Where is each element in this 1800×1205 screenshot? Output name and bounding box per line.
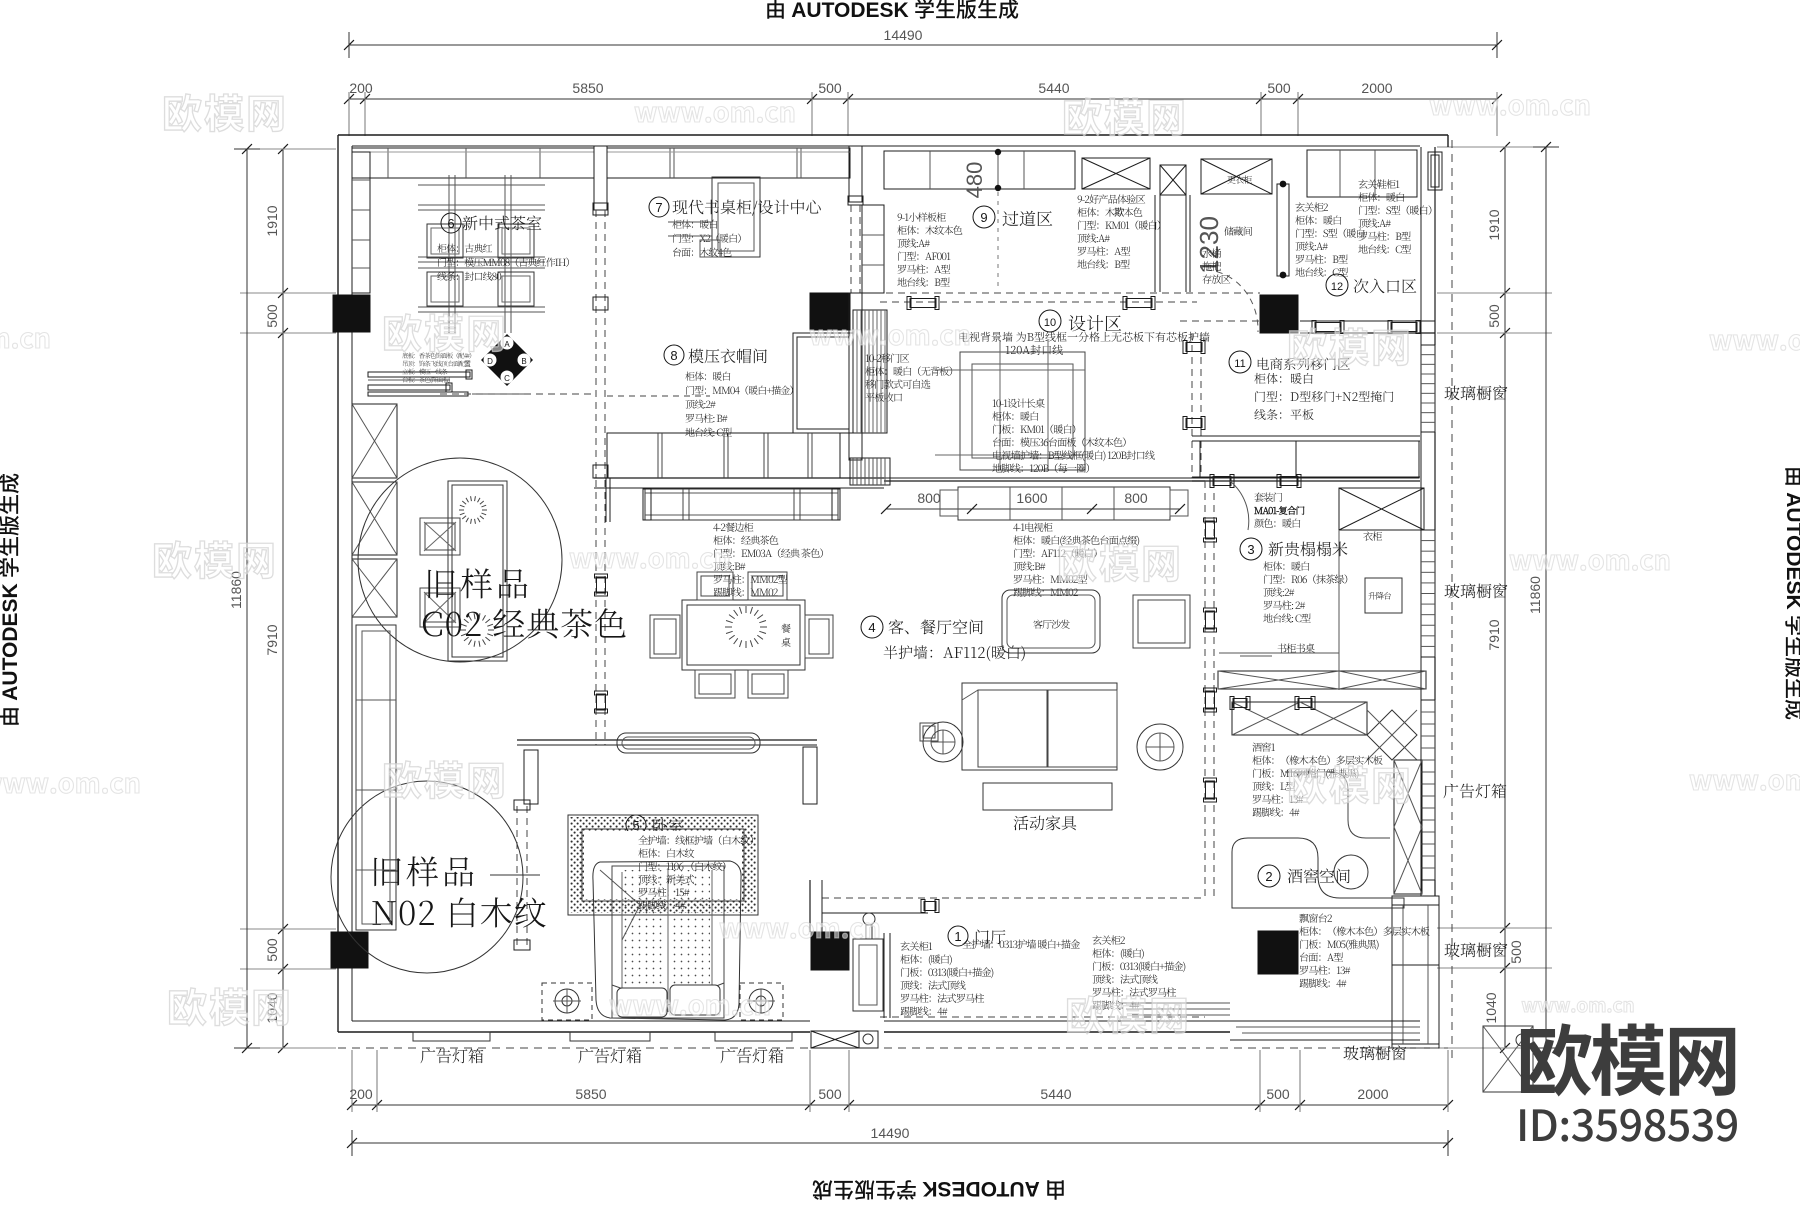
sample area: pointer line from N02 text [490, 874, 540, 876]
svg-text:500: 500 [1508, 940, 1524, 964]
room 10: TV wall long annotation [958, 329, 1210, 358]
svg-text:480: 480 [962, 162, 987, 199]
outer dimension: right total dimension line 11860 [1527, 142, 1559, 1053]
cabinet: dining side cabinet band 4-2 [606, 478, 840, 522]
room 9: 9-1 sample cabinet annotation block [897, 209, 963, 289]
svg-text:踢脚线：4#: 踢脚线：4# [900, 1003, 948, 1018]
svg-text:ID:3598539: ID:3598539 [1516, 1092, 1739, 1154]
room 2: vertical wine rack strip with X braces [1394, 760, 1422, 894]
svg-text:由 AUTODESK 学生版生成: 由 AUTODESK 学生版生成 [812, 1175, 1066, 1200]
room 10: 10-2 sliding door annotation block [865, 350, 958, 404]
sample area: display cabinet tall rect in C02 circle [448, 481, 507, 661]
svg-text:1910: 1910 [264, 205, 280, 236]
wall: living room / tatami-wine vertical dashed partition [1204, 481, 1217, 898]
svg-text:地台线：C型: 地台线：C型 [1358, 241, 1411, 256]
svg-text:顶线:2#: 顶线:2# [685, 396, 716, 411]
svg-text:2: 2 [1265, 869, 1272, 884]
svg-text:www.om.cn: www.om.cn [1429, 84, 1591, 123]
svg-text:7910: 7910 [1486, 619, 1502, 650]
room 8: lower cabinet band with dividers [607, 433, 840, 478]
storefront dashed glass line bottom [338, 1047, 1448, 1049]
window: right wall glass window lower (ladder symbol) [1421, 700, 1435, 880]
column: concrete column top-left (filled) [333, 295, 370, 332]
svg-text:1: 1 [954, 929, 961, 944]
sample area: big circle N02 [331, 781, 523, 973]
svg-text:罗马柱: B#: 罗马柱: B# [685, 410, 728, 425]
svg-text:更衣柜: 更衣柜 [1227, 173, 1252, 186]
room 6: finish annotation text block [437, 240, 575, 283]
svg-text:新贵榻榻米: 新贵榻榻米 [1268, 537, 1348, 560]
svg-text:桌: 桌 [781, 634, 791, 649]
wall: bedroom left dashed partition [514, 800, 530, 950]
room 5: nightstand left with target circle [542, 983, 592, 1020]
watermark: omo grid [0, 82, 1800, 1042]
wall: top exterior wall [338, 135, 1448, 147]
svg-text:12: 12 [1331, 281, 1343, 293]
wall: partition under study / wardrobe room horizontal [594, 478, 884, 488]
svg-text:客、餐厅空间: 客、餐厅空间 [888, 615, 984, 638]
room 3: door spec text tao zhuang men [1254, 489, 1306, 530]
room 2: 酒窖1 annotation block [1252, 739, 1383, 819]
svg-text:玻璃橱窗: 玻璃橱窗 [1343, 1041, 1407, 1064]
room 3: bookcase desk band with X braces [1218, 640, 1426, 689]
svg-text:www.om.cn: www.om.cn [0, 317, 51, 356]
room 4: 4-1 TV cabinet annotation block [1013, 519, 1139, 599]
svg-text:6: 6 [447, 216, 454, 231]
room 1: under-window X-braced box at entry [811, 1031, 878, 1048]
room 1: entry cabinet 2 annotation block [1092, 932, 1186, 1012]
svg-text:由 AUTODESK 学生版生成: 由 AUTODESK 学生版生成 [0, 473, 24, 727]
cabinet band: hallway top wall cabinets [884, 151, 1075, 189]
svg-text:500: 500 [818, 80, 842, 96]
column: concrete column bottom-center (filled) [811, 932, 849, 970]
wall: left exterior wall [338, 135, 352, 1032]
svg-text:500: 500 [1486, 304, 1502, 328]
room 10: room title circled 10 she ji qu [1039, 310, 1122, 336]
svg-text:www.om.cn: www.om.cn [719, 907, 881, 946]
svg-text:N02 白木纹: N02 白木纹 [371, 888, 548, 935]
wall: dining room bench wall bottom [517, 740, 817, 804]
svg-text:地台线：C型: 地台线：C型 [1295, 264, 1348, 279]
room 9: storage labels [1202, 223, 1253, 286]
svg-text:1910: 1910 [1486, 209, 1502, 240]
room 4: 4-2 side cabinet annotation block [713, 519, 829, 599]
svg-text:www.om.cn: www.om.cn [609, 984, 771, 1023]
room 7: finish annotation text block [672, 216, 746, 259]
cabinet: living room TV cabinet band [940, 487, 1188, 520]
sample area: wreath decor top [482, 509, 487, 511]
outer dimension: bottom total dimension line 14490 [347, 1125, 1453, 1156]
wall: living/dining dashed partition x=600 [595, 480, 597, 745]
column: concrete column top-right (filled) [1260, 295, 1298, 333]
cabinet band: entry area shoe cabinets top right [1307, 150, 1417, 197]
room 5: bed with quilt and pillows [593, 861, 741, 1020]
room 4: dining table with six chairs [650, 572, 833, 698]
lightbox: advertising lightbox strip 3 [715, 1032, 792, 1067]
room 8: dashed line inside wardrobe room [607, 395, 710, 397]
svg-text:门型：X2（暖白）: 门型：X2（暖白） [672, 230, 746, 245]
svg-text:500: 500 [1267, 80, 1291, 96]
storefront dashed glass line right side [1451, 140, 1453, 1060]
room 2: upper X-braced wine cabinet band [1230, 697, 1367, 736]
louver screen: vertical slatted panel right of wardrobe room [853, 310, 887, 433]
svg-text:欧模网: 欧模网 [162, 82, 288, 140]
wall: design area / secondary entry dashed boundary with band [862, 293, 1435, 334]
cabinet: narrow X-braced divider [1160, 165, 1186, 195]
svg-text:套装门: 套装门 [1254, 489, 1283, 504]
column: concrete column bottom-left (filled) [331, 932, 368, 968]
svg-text:2000: 2000 [1361, 80, 1392, 96]
room 5: stippled headboard feature wall [568, 815, 758, 915]
room 3: tatami room boundary lines [1219, 530, 1339, 690]
svg-text:欧模网: 欧模网 [1287, 754, 1413, 812]
window: right wall glass window upper (ladder symbol) [1421, 345, 1435, 432]
svg-text:玻璃橱窗: 玻璃橱窗 [1444, 579, 1508, 602]
room 5: bed pillows [617, 985, 720, 1017]
svg-text:3: 3 [1247, 542, 1254, 557]
svg-text:书柜书桌: 书柜书桌 [1277, 640, 1315, 655]
wall: partition between tea room and study (vertical, partly dashed) [593, 146, 608, 478]
room 6: tea mats squares [427, 224, 534, 306]
svg-text:200: 200 [349, 1086, 373, 1102]
svg-text:柜体：暖白: 柜体：暖白 [672, 216, 718, 231]
svg-text:升降台: 升降台 [1368, 590, 1392, 602]
louver screen: slatted screen next to wardrobe [850, 458, 890, 485]
svg-text:120A封口线: 120A封口线 [1005, 342, 1063, 358]
room 3: finish annotation block [1263, 558, 1353, 625]
svg-text:5850: 5850 [572, 80, 603, 96]
svg-text:线条：平板: 线条：平板 [1254, 406, 1314, 423]
svg-text:全护墙：0313护墙 暖白+描金: 全护墙：0313护墙 暖白+描金 [962, 936, 1080, 951]
room 4: armchair right [1133, 595, 1190, 648]
svg-text:2000: 2000 [1357, 1086, 1388, 1102]
dimension: interior 800/1600/800 above TV cabinet [881, 490, 1185, 514]
room 4: square floor lamp left [920, 723, 938, 741]
lightbox: advertising lightbox strip 1 [413, 1032, 490, 1067]
wall: storage niche verticals in secondary entry [1155, 195, 1190, 292]
door: storage room dashed swing arc [1206, 270, 1258, 332]
svg-text:次入口区: 次入口区 [1353, 274, 1417, 297]
svg-text:欧模网: 欧模网 [382, 302, 508, 360]
room 12: room title circled 12 ci ru kou qu [1326, 274, 1417, 297]
svg-text:地台线: C型: 地台线: C型 [1263, 610, 1311, 625]
svg-text:广告灯箱: 广告灯箱 [1443, 779, 1507, 802]
room 11: finish annotation block [1254, 370, 1394, 423]
svg-text:地台线：B型: 地台线：B型 [897, 274, 950, 289]
svg-text:500: 500 [264, 938, 280, 962]
outer dimension: top total dimension line 14490 [344, 27, 1502, 58]
svg-text:11860: 11860 [1527, 576, 1543, 614]
window: bay window seat band bottom-right [1392, 896, 1439, 1048]
svg-text:过道区: 过道区 [1002, 205, 1053, 230]
room 3: wardrobe X-braced cabinet top [1339, 488, 1424, 543]
sample area: classic chair top [420, 518, 460, 555]
svg-text:www.om.cn: www.om.cn [1689, 759, 1800, 798]
svg-text:平板收口: 平板收口 [865, 389, 903, 404]
svg-text:www.om.cn: www.om.cn [0, 762, 141, 801]
svg-text:10: 10 [1044, 317, 1056, 329]
svg-text:14490: 14490 [871, 1125, 910, 1141]
svg-text:200: 200 [349, 80, 373, 96]
svg-text:7: 7 [655, 200, 662, 215]
svg-text:欧模网: 欧模网 [1062, 86, 1188, 144]
room 10: 10-1 design desk annotation block [992, 395, 1155, 475]
room 1: entry cabinet 1 annotation block [900, 938, 994, 1018]
column: concrete column top-center (filled) [810, 293, 850, 330]
shelving: left wall display cabinet lower [356, 625, 396, 930]
svg-text:广告灯箱: 广告灯箱 [578, 1044, 642, 1067]
wall: entry hall dashed corridor boundary top [822, 898, 1205, 913]
room 1: entry door leaf with knob [810, 880, 890, 1018]
room 9: vertical dim 480 with dots [962, 149, 1001, 290]
svg-text:www.om.cn: www.om.cn [809, 314, 971, 353]
room 6: sliding door tracks [368, 370, 531, 396]
sample area: classic chair bottom [420, 588, 460, 627]
svg-text:欧模网: 欧模网 [382, 749, 508, 807]
svg-text:5850: 5850 [575, 1086, 606, 1102]
room 9: 9-2 product experience annotation block [1077, 191, 1166, 271]
svg-text:C: C [504, 374, 510, 383]
room 6: tea table group (rails) [418, 175, 545, 333]
room 12: entry cabinet 2 annotation block [1295, 199, 1366, 279]
svg-text:线条：封口线80: 线条：封口线80 [437, 268, 501, 283]
banner: top AUTODESK student edition text [765, 0, 1019, 24]
room 11: room title circled 11 dian shang xi lie yi men qu [1229, 351, 1351, 373]
svg-text:模压衣帽间: 模压衣帽间 [688, 344, 768, 367]
svg-text:存放区: 存放区 [1202, 271, 1231, 286]
room 4: round side table left [923, 722, 963, 762]
room 9: vertical dim 1230 with dots [1194, 216, 1224, 274]
wall: hallway lower dashed boundary [880, 297, 1197, 310]
svg-text:地台线：B型: 地台线：B型 [1077, 256, 1130, 271]
wall: TV feature wall horizontal (living room top) [884, 478, 1205, 481]
banner: right AUTODESK student edition text (rotated) [1780, 466, 1800, 720]
svg-text:玻璃橱窗: 玻璃橱窗 [1444, 381, 1508, 404]
svg-text:门型：MM04（暖白+描金）: 门型：MM04（暖白+描金） [685, 382, 799, 397]
svg-text:客厅沙发: 客厅沙发 [1033, 616, 1070, 631]
room 5: bed quilt dotted texture strips [624, 870, 710, 1010]
room 4: big sofa with cushions [962, 683, 1117, 770]
outer dimension: bottom segmented dimension line 200/5850/500/5440/500/2000 [347, 1050, 1453, 1112]
svg-text:半护墙：AF112(暖白): 半护墙：AF112(暖白) [883, 642, 1026, 663]
sample area: big circle C02 [358, 458, 562, 662]
room 4: living sofa small (ke ting sha fa) rounded rect [1002, 590, 1100, 653]
room 5: nightstand right with target circle [740, 983, 783, 1020]
svg-text:踢脚线：4#: 踢脚线：4# [1299, 975, 1347, 990]
room 2: room title circled 2 jiu jiao kong jian [1258, 864, 1351, 887]
room 3: lifting table sheng jiang tai [1365, 578, 1402, 613]
svg-text:www.om.cn: www.om.cn [569, 537, 731, 576]
svg-text:8: 8 [670, 348, 677, 363]
svg-text:5440: 5440 [1040, 1086, 1071, 1102]
svg-text:电视背景墙 为B型线框一分格上无芯板下有芯板护墙: 电视背景墙 为B型线框一分格上无芯板下有芯板护墙 [958, 329, 1210, 345]
svg-text:餐: 餐 [781, 620, 791, 635]
room 4: dining table label can zhuo (vertical) [781, 620, 791, 649]
svg-text:C02 经典茶色: C02 经典茶色 [421, 599, 628, 646]
svg-text:现代书桌柜/设计中心: 现代书桌柜/设计中心 [672, 195, 822, 218]
wall: entry hall dashed corridor boundary bottom [880, 1016, 1205, 1018]
svg-text:由 AUTODESK 学生版生成: 由 AUTODESK 学生版生成 [765, 0, 1019, 24]
svg-text:新中式茶室: 新中式茶室 [462, 211, 542, 234]
room 6: dashed opening to sample area [440, 393, 594, 395]
svg-text:广告灯箱: 广告灯箱 [720, 1044, 784, 1067]
cabinet band: study room top wall shelving [607, 148, 850, 178]
svg-text:活动家具: 活动家具 [1013, 811, 1078, 834]
window: storage niche window symbol with dim dots [1277, 181, 1289, 279]
room 2: curved tasting counter [1232, 772, 1404, 908]
svg-text:门型：D型移门+N2型掩门: 门型：D型移门+N2型掩门 [1254, 388, 1394, 405]
sample area: wreath decor bottom [488, 629, 494, 631]
room 3: room title circled 3 xin gui ta ta mi [1240, 537, 1348, 560]
wall: right exterior wall with storefront sections [1421, 147, 1435, 896]
svg-text:地台线: C型: 地台线: C型 [685, 424, 732, 439]
room 1: room title circled 1 men ting [948, 925, 1080, 951]
svg-text:800: 800 [1124, 490, 1148, 506]
svg-text:欧模网: 欧模网 [1065, 984, 1191, 1042]
svg-text:7910: 7910 [264, 624, 280, 655]
svg-text:酒窖空间: 酒窖空间 [1287, 864, 1351, 887]
svg-text:玻璃橱窗: 玻璃橱窗 [1444, 938, 1508, 961]
room 2: bay window seat lines bottom [1120, 1003, 1420, 1040]
column: concrete column bottom-right (filled) [1258, 931, 1298, 974]
cabinet: hallway west wall sample cabinet band [862, 205, 884, 293]
svg-text:欧模网: 欧模网 [152, 529, 278, 587]
wall: e-commerce room left dashed boundary [1183, 333, 1205, 478]
svg-text:踢脚线：MM02: 踢脚线：MM02 [713, 584, 779, 599]
svg-text:500: 500 [264, 304, 280, 328]
room 6: room title circled 6 xin zhong shi cha shi [441, 211, 542, 234]
room 2: corner diamond display rack [1367, 710, 1417, 760]
window: right wall small window at top [1428, 152, 1442, 190]
svg-text:B: B [521, 357, 526, 366]
svg-text:欧模网: 欧模网 [1057, 532, 1183, 590]
svg-text:衣柜: 衣柜 [1363, 528, 1382, 543]
svg-text:由 AUTODESK 学生版生成: 由 AUTODESK 学生版生成 [1780, 466, 1800, 720]
room 5: room title circled 5 wo shi [612, 810, 697, 837]
svg-text:11: 11 [1234, 358, 1245, 370]
cabinet: hallway X-braced cabinet [1082, 158, 1150, 189]
svg-text:柜体：古典红: 柜体：古典红 [437, 240, 492, 255]
svg-text:14490: 14490 [884, 27, 923, 43]
svg-text:4: 4 [868, 620, 875, 635]
svg-text:颜色：暖白: 颜色：暖白 [1254, 515, 1301, 530]
room 6: index diamond ADCB symbol [481, 334, 533, 386]
outer dimension: left segmented dimension line 1910/500/7910/500/1040 [240, 144, 336, 1053]
furniture: dining bench below wall [617, 733, 760, 753]
room 3: door swing arc with frame [1210, 475, 1301, 531]
wall: e-commerce room bottom wall and sliding door cabinets [1192, 436, 1420, 481]
svg-text:欧模网: 欧模网 [1287, 316, 1413, 374]
svg-text:地脚线：120B（每一圈）: 地脚线：120B（每一圈） [992, 460, 1095, 475]
banner: bottom AUTODESK student edition text (rotated 180) [812, 1175, 1066, 1205]
room 4: round side table right [1137, 724, 1183, 770]
svg-text:www.om.cn: www.om.cn [634, 91, 796, 130]
room 8: room title circled 8 mo ya yi mao jian [664, 344, 768, 367]
svg-text:1600: 1600 [1016, 490, 1047, 506]
room 12: entry cabinet 1 annotation block [1358, 176, 1437, 256]
outer dimension: right segmented dimension line 1910/500/7910/500/1040 [1437, 142, 1552, 1053]
svg-text:欧模网: 欧模网 [167, 976, 293, 1034]
svg-text:www.om.cn: www.om.cn [1509, 539, 1671, 578]
room 4: room title circled 4 ke can ting kong jian [861, 615, 1026, 663]
room 8: finish annotation text block [685, 368, 799, 439]
room 6: tiny spec text beside diamond [402, 351, 475, 384]
room 7: room title circled 7 xian dai shu zhuo gui / design center [649, 195, 822, 218]
banner: left AUTODESK student edition text (rotated) [0, 473, 24, 727]
svg-text:广告灯箱: 广告灯箱 [420, 1044, 484, 1067]
wall: bottom exterior wall [338, 1021, 1230, 1032]
svg-text:www.om.cn: www.om.cn [1709, 319, 1800, 358]
room 2: bay window annotation block [1299, 910, 1430, 990]
room 7: desk cabinet drawing [668, 177, 760, 257]
cabinet band: tea room top wall shelving [352, 148, 594, 178]
svg-text:柜体：暖白: 柜体：暖白 [685, 368, 731, 383]
room 4: dining table centerpiece sunburst [760, 626, 767, 628]
room 9: room title circled 9 guo dao qu [973, 205, 1053, 230]
svg-text:800: 800 [917, 490, 941, 506]
svg-text:1040: 1040 [1483, 992, 1499, 1023]
room 10: design long desk drawing [935, 340, 1085, 470]
svg-text:9: 9 [980, 210, 987, 225]
window: left wall band upper section [352, 152, 370, 293]
svg-text:500: 500 [818, 1086, 842, 1102]
cabinet: changing closet X-braced (geng yi gui) [1201, 159, 1272, 194]
room 4: coffee table rectangle [983, 783, 1112, 810]
window: right wall glass window mid (ladder symbol) [1421, 530, 1435, 657]
wall: partition between study and hallway (vertical, partly dashed) [848, 146, 863, 460]
outer dimension: top segmented dimension line 200/5850/500/5440/500/2000 [344, 80, 1502, 136]
outer dimension: left total dimension line 11860 [228, 144, 260, 1053]
svg-text:500: 500 [1266, 1086, 1290, 1102]
room 5: finish annotation block [638, 832, 759, 912]
signage: small X-braced box outside bottom-right corner [1483, 1026, 1533, 1092]
svg-text:门型：模压MM08（古典红作IH）: 门型：模压MM08（古典红作IH） [437, 254, 575, 269]
room 8: wardrobe cabinet rectangle [793, 333, 853, 433]
svg-text:储藏间: 储藏间 [1224, 223, 1253, 238]
shelving: left wall X-braced cabinets upper [352, 404, 397, 617]
lightbox: advertising lightbox strip 2 [570, 1032, 650, 1067]
